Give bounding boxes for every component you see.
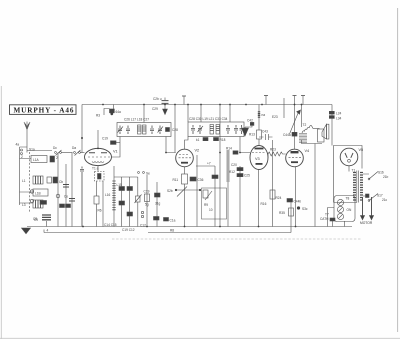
coil L24	[329, 111, 341, 115]
capacitor C8 stack	[33, 215, 51, 227]
svg-text:L1A: L1A	[33, 158, 40, 162]
capacitor C26	[126, 126, 130, 135]
svg-text:L24: L24	[336, 112, 342, 116]
svg-text:E23: E23	[272, 115, 278, 119]
resistor R4a	[96, 105, 121, 118]
antenna	[24, 122, 30, 153]
svg-text:R6: R6	[98, 209, 102, 213]
coil L17 hatched	[22, 176, 43, 184]
svg-text:C20: C20	[231, 163, 237, 167]
svg-text:21b: 21b	[383, 175, 389, 179]
svg-text:C12: C12	[140, 224, 146, 228]
dial lamp box	[334, 196, 355, 222]
svg-text:R23: R23	[270, 148, 276, 152]
wire V2 cathode down	[184, 190, 186, 227]
wire to V1 grid	[81, 152, 85, 154]
junction dots on chassis	[82, 104, 302, 228]
resistor R11	[173, 167, 188, 184]
svg-text:MURPHY - A46: MURPHY - A46	[14, 106, 75, 114]
capacitor C33	[226, 125, 230, 134]
capacitor C20	[231, 163, 243, 171]
switch Da	[72, 146, 81, 156]
svg-text:10: 10	[209, 208, 213, 212]
grid stopper R14	[226, 147, 238, 155]
chassis rail upper	[27, 226, 352, 228]
stub x184 top	[183, 96, 185, 105]
capacitor C19	[102, 137, 120, 145]
svg-text:C36: C36	[198, 178, 204, 182]
wire vertical x72	[71, 153, 73, 227]
wire AF boundary x197	[196, 155, 198, 227]
svg-text:C44a: C44a	[283, 133, 291, 137]
coil L13 hatched	[22, 200, 43, 208]
wire V1 anode to IFT1	[112, 137, 121, 158]
svg-text:L34: L34	[336, 117, 342, 121]
capacitor Co	[64, 195, 75, 202]
switch S17	[363, 194, 388, 203]
svg-text:Se: Se	[146, 172, 150, 176]
capacitor C7	[40, 201, 47, 205]
switch contacts S5	[141, 211, 143, 217]
wire vertical x58	[57, 153, 59, 227]
capacitor C42	[245, 119, 254, 128]
resistor R23 zigzag	[268, 148, 286, 159]
capacitor C10	[60, 204, 65, 208]
capacitor C34	[234, 125, 238, 134]
switch Se	[138, 172, 151, 176]
stub x284	[283, 98, 285, 118]
wire V4 cathode down	[295, 167, 297, 227]
svg-text:R9: R9	[204, 203, 208, 207]
svg-text:Cb: Cb	[59, 180, 63, 184]
HT bus wire (top)	[82, 104, 332, 106]
wire IFT1 feed	[143, 105, 145, 123]
svg-text:L3: L3	[22, 203, 26, 207]
svg-text:R24: R24	[276, 196, 282, 200]
wire IFT2 out	[240, 137, 250, 153]
wire V5 to T1	[348, 166, 350, 172]
wire lamp box down	[328, 208, 345, 227]
wire vertical x215	[214, 166, 216, 227]
wire V1 cathode	[97, 166, 99, 172]
svg-text:C29: C29	[152, 107, 158, 111]
svg-text:R12: R12	[229, 170, 235, 174]
volume pot R9	[203, 190, 213, 212]
mains transformer T1	[334, 169, 364, 203]
wire grid feed	[27, 150, 52, 152]
svg-text:C14 C15: C14 C15	[104, 223, 117, 227]
capacitor C5	[47, 177, 52, 183]
svg-text:C43: C43	[262, 130, 268, 134]
capacitor C1a	[164, 218, 176, 223]
wire column x147	[146, 175, 148, 227]
capacitor C13	[50, 156, 55, 162]
chassis rail lower	[44, 227, 291, 233]
switch S1a contacts	[21, 149, 23, 151]
capacitor C17 dashed box	[95, 172, 105, 182]
coil L1A	[31, 156, 47, 163]
motor lead 1	[360, 197, 364, 220]
valve V2	[176, 149, 199, 167]
volume control enclosure	[202, 188, 227, 219]
capacitor C29 with arrow	[152, 98, 169, 115]
svg-text:S2b: S2b	[167, 189, 173, 193]
node junction on x=82	[81, 137, 83, 139]
wire V2 plate up	[185, 137, 189, 150]
scan border bottom	[0, 337, 400, 339]
wire vertical x66	[65, 164, 67, 227]
svg-text:+7: +7	[207, 162, 211, 166]
svg-text:V3: V3	[255, 157, 260, 161]
svg-text:L1: L1	[22, 179, 26, 183]
wire column x157	[156, 182, 158, 227]
scan fold line	[112, 238, 362, 240]
svg-text:S17: S17	[377, 194, 383, 198]
resistor R36 on tap	[366, 194, 370, 198]
trimmer C28	[158, 126, 179, 135]
wire antenna jog	[20, 147, 28, 205]
svg-text:4: 4	[47, 229, 49, 233]
capacitor C18	[127, 212, 133, 216]
svg-text:S1a: S1a	[29, 148, 35, 152]
output transformer T2	[299, 105, 320, 143]
resistor R16	[259, 170, 267, 227]
wire speaker return	[302, 140, 323, 227]
capacitor C15	[80, 167, 84, 227]
wire left corner drop x=82	[81, 105, 83, 153]
switch contact 8a	[30, 190, 33, 193]
svg-text:Da: Da	[72, 146, 76, 150]
svg-text:V5: V5	[359, 148, 364, 152]
capacitor C1b	[154, 217, 160, 221]
capacitor C27	[150, 126, 154, 135]
wire x103 down	[102, 181, 104, 227]
capacitor C16b	[127, 177, 133, 227]
coil L1B	[33, 189, 48, 196]
scan border right	[397, 8, 399, 332]
wire y166	[196, 165, 215, 167]
capacitor C38	[214, 138, 226, 143]
wire IFT2 feeds	[175, 105, 230, 153]
trimmer disc	[56, 194, 60, 198]
svg-text:R18: R18	[220, 138, 226, 142]
svg-text:Dc: Dc	[53, 146, 57, 150]
IFT1 box	[117, 123, 171, 137]
wire osc top connector	[114, 176, 138, 178]
svg-text:V1: V1	[113, 150, 118, 154]
wire vertical x240	[239, 166, 241, 227]
coil L19/L21	[210, 125, 220, 135]
capacitor C46	[330, 218, 335, 227]
trimmer C12a	[135, 177, 142, 227]
svg-text:ON: ON	[347, 208, 352, 212]
stub x266	[265, 96, 267, 105]
svg-text:C26 L17 L18 C27: C26 L17 L18 C27	[124, 118, 149, 122]
switch S16	[363, 171, 389, 180]
AF coil winding	[226, 150, 230, 227]
coil L17/L18	[138, 125, 147, 134]
scan border left	[0, 86, 2, 339]
svg-text:R3: R3	[96, 114, 100, 118]
svg-text:L16: L16	[105, 193, 111, 197]
svg-text:V2: V2	[195, 149, 200, 153]
trimmer C35	[240, 125, 244, 134]
wire V1 top pin	[97, 130, 99, 148]
svg-text:5g: 5g	[145, 203, 149, 207]
IFT2 box	[188, 122, 244, 137]
switch S3c	[297, 206, 308, 211]
svg-text:S3c: S3c	[302, 207, 308, 211]
svg-text:64a: 64a	[116, 110, 122, 114]
resistor R6	[94, 181, 102, 227]
svg-text:C8: C8	[33, 217, 37, 221]
tone arrow E23	[272, 110, 301, 134]
svg-text:4a: 4a	[16, 143, 20, 147]
valve V5	[340, 148, 363, 166]
svg-text:T7: T7	[325, 213, 329, 217]
trimmer C31	[198, 125, 204, 134]
svg-text:T8: T8	[346, 197, 350, 201]
trimmer C25	[118, 126, 124, 135]
svg-text:C42: C42	[247, 119, 253, 123]
coil L34	[329, 116, 341, 121]
switch contact 8b	[30, 199, 33, 202]
resistor R15 on V3 anode line	[258, 105, 265, 131]
svg-text:C28 C30 L19 L21 C33 C34: C28 C30 L19 L21 C33 C34	[189, 117, 228, 121]
capacitor C36	[190, 177, 204, 182]
svg-text:C1a: C1a	[170, 219, 176, 223]
svg-text:R11: R11	[173, 178, 179, 182]
svg-text:R35: R35	[279, 211, 285, 215]
AVC arrow	[242, 127, 249, 136]
svg-text:C25: C25	[244, 174, 250, 178]
resistor R18	[196, 138, 208, 143]
svg-text:R14: R14	[226, 147, 232, 151]
resistor R24	[270, 140, 282, 227]
valve V3	[250, 146, 268, 170]
wire long vertical x220	[219, 105, 221, 227]
capacitor C11	[66, 204, 71, 208]
band switch dashed gang line	[29, 152, 31, 212]
svg-text:na: na	[262, 113, 266, 117]
svg-text:MOTOR: MOTOR	[360, 221, 373, 225]
loudspeaker	[318, 124, 329, 142]
capacitor C44b	[287, 199, 301, 204]
svg-text:R16: R16	[261, 202, 267, 206]
svg-text:R13: R13	[249, 133, 255, 137]
label T7 CATH	[320, 213, 329, 222]
svg-text:k1: k1	[196, 138, 200, 142]
svg-text:C19 C12: C19 C12	[122, 228, 135, 232]
oscillator coil L15/L16	[105, 166, 122, 227]
resistor R35	[279, 202, 294, 227]
resistor R5	[145, 194, 150, 202]
title box MURPHY - A46	[10, 105, 77, 115]
svg-text:C19: C19	[144, 190, 150, 194]
wire V4 plate up	[294, 96, 296, 150]
svg-text:R8: R8	[170, 229, 174, 233]
svg-text:21c: 21c	[382, 198, 388, 202]
switch Dc	[53, 146, 62, 160]
svg-text:S16: S16	[378, 171, 384, 175]
valve V4	[286, 149, 309, 167]
wire grid line	[62, 152, 73, 154]
stub x303	[302, 96, 304, 105]
svg-text:V4: V4	[305, 149, 310, 153]
wire into coil rows	[20, 159, 34, 204]
svg-text:C2b u: C2b u	[153, 97, 162, 101]
svg-text:L1B: L1B	[35, 192, 41, 196]
capacitor C14b	[119, 177, 125, 227]
capacitor C21	[155, 193, 161, 197]
capacitor C25b	[237, 174, 250, 178]
capacitor Cb	[59, 180, 69, 187]
capacitor C43	[259, 130, 273, 141]
capacitor C6	[53, 177, 58, 183]
resistor R13	[249, 130, 262, 146]
capacitor C30	[191, 125, 195, 134]
ground arrow	[22, 228, 31, 234]
capacitor C13b	[119, 201, 125, 205]
capacitor C44a	[283, 132, 297, 137]
svg-text:C19: C19	[102, 137, 108, 141]
svg-text:Co: Co	[64, 195, 68, 199]
wire right drop x332	[331, 105, 333, 146]
valve V1	[85, 148, 118, 165]
svg-text:T1 a: T1 a	[92, 167, 99, 171]
motor lead 2	[369, 197, 373, 220]
wire IFT1 secondary down	[166, 137, 176, 153]
potentiometer S2b	[167, 184, 201, 197]
capacitor C22	[212, 175, 218, 179]
svg-text:C44b: C44b	[294, 200, 302, 204]
svg-text:31g: 31g	[155, 202, 161, 206]
svg-text:T2: T2	[303, 123, 307, 127]
rectifier box	[334, 146, 363, 169]
